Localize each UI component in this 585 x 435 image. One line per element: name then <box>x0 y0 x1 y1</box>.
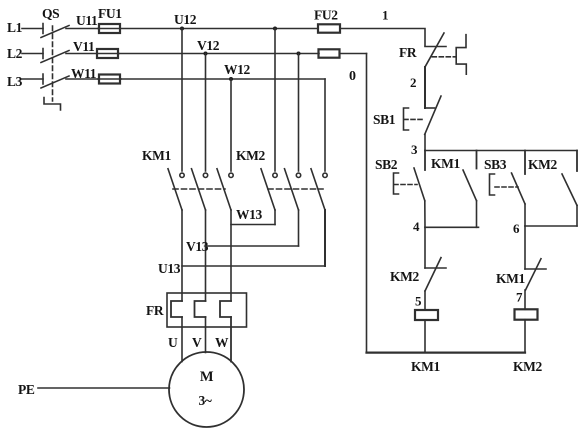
switch QS linkage (dashed) <box>52 26 54 101</box>
svg-text:PE: PE <box>18 382 35 397</box>
wire FR to motor V <box>205 317 207 353</box>
wire SB2 to node 4 <box>424 201 426 228</box>
wire FR to motor U <box>181 317 183 362</box>
svg-text:L3: L3 <box>7 74 23 89</box>
svg-text:4: 4 <box>413 219 420 234</box>
coil KM2 <box>515 309 538 319</box>
pushbutton SB1 blade <box>425 96 441 134</box>
wire node 4 down to KM2 interlock <box>424 227 426 268</box>
svg-text:QS: QS <box>42 6 59 21</box>
svg-text:L2: L2 <box>7 46 23 61</box>
pushbutton SB1 actuator bracket <box>404 108 409 130</box>
svg-text:KM1: KM1 <box>142 148 171 163</box>
wire KM2 self-hold lower terminal <box>576 205 578 226</box>
svg-text:U11: U11 <box>76 13 98 28</box>
wire node 6 link <box>525 225 577 227</box>
contact KM2 self-hold NO blade <box>562 174 577 205</box>
contact KM1-3 terminal circle <box>229 173 233 177</box>
junction dot KM2 tap A <box>273 27 277 31</box>
wire drop phase C corner to KM2 contact 3 <box>324 79 326 171</box>
pushbutton SB2 actuator link (dashed) <box>394 184 417 186</box>
thermal relay FR heater V <box>195 301 206 317</box>
wire L1 lead-in <box>22 28 43 30</box>
wire drop phase A to KM2 contact 1 <box>274 29 276 172</box>
wire coil KM2 to bottom rail <box>524 320 526 353</box>
contact KM2-3 blade <box>311 169 325 210</box>
junction dot V12 <box>204 52 208 56</box>
wire W13 link <box>231 224 275 226</box>
thermal relay FR trip element symbol <box>456 35 466 74</box>
svg-text:M: M <box>200 369 214 385</box>
svg-text:KM2: KM2 <box>236 148 265 163</box>
fuse FU2 element 2 <box>319 49 340 57</box>
svg-text:KM1: KM1 <box>411 359 440 374</box>
fuse FU1 element 3 <box>98 78 121 80</box>
contact KM1 interlock NC blade <box>526 259 542 290</box>
svg-text:2: 2 <box>410 75 416 90</box>
wire U13 link <box>182 265 325 267</box>
wire drop W12 to KM1 contact 3 <box>230 79 232 171</box>
svg-text:SB3: SB3 <box>484 157 507 172</box>
wire KM2-2 down to V13 <box>298 210 300 246</box>
svg-text:6: 6 <box>513 221 520 236</box>
coil KM1 <box>415 310 438 320</box>
svg-text:W12: W12 <box>224 62 250 77</box>
svg-text:U: U <box>168 335 178 350</box>
pushbutton SB1 actuator link (dashed) <box>404 118 424 120</box>
wire KM1 self-hold lower terminal <box>476 201 478 228</box>
wire drop phase B to KM2 contact 2 <box>298 54 300 172</box>
thermal relay FR NC contact crossbar <box>425 46 446 48</box>
svg-text:SB1: SB1 <box>373 112 396 127</box>
wire KM1-1 to FR column U <box>181 210 183 301</box>
wire drop V12 to KM1 contact 2 <box>205 54 207 172</box>
svg-text:V: V <box>192 335 202 350</box>
wire bottom rail <box>367 352 526 354</box>
wire coil KM1 to bottom rail <box>424 320 426 353</box>
svg-text:0: 0 <box>349 69 356 84</box>
wire KM2-1 down to W13 <box>274 210 276 225</box>
thermal relay FR heater U <box>171 301 182 317</box>
svg-text:KM2: KM2 <box>528 157 557 172</box>
pushbutton SB1 NC crossbar <box>425 107 435 109</box>
wire FR to motor W <box>230 317 232 362</box>
wire KM1 self-hold upper terminal <box>476 151 478 169</box>
svg-text:7: 7 <box>516 290 523 305</box>
svg-text:L1: L1 <box>7 20 23 35</box>
contact KM1 interlock NC crossbar <box>525 268 546 270</box>
contact KM2-2 terminal circle <box>296 173 300 177</box>
junction dot U12 <box>180 27 184 31</box>
svg-text:5: 5 <box>415 294 422 309</box>
fuse FU1 element 2 <box>97 53 119 55</box>
svg-text:FU2: FU2 <box>314 8 338 23</box>
svg-text:V11: V11 <box>73 39 95 54</box>
contact KM2 interlock NC crossbar <box>425 267 446 269</box>
svg-text:U13: U13 <box>158 261 181 276</box>
thermal relay FR NC contact blade <box>425 33 444 67</box>
svg-text:W: W <box>215 335 229 350</box>
fuse FU2 element 1 <box>318 24 340 32</box>
fuse FU1 element 1 <box>98 28 120 30</box>
wire SB1 to rail 3 <box>424 134 426 150</box>
wire node 4 link <box>425 226 479 228</box>
wire KM2-3 down to U13 <box>324 210 326 266</box>
svg-text:U12: U12 <box>174 12 197 27</box>
wire phase B: FU1 to FU2 <box>119 53 319 55</box>
wire PE to motor frame <box>38 387 170 389</box>
wire KM1 interlock to coil KM2 <box>524 290 526 309</box>
pushbutton SB2 actuator bracket <box>394 173 399 194</box>
wire L3 lead-in <box>22 78 43 80</box>
switch QS linkage handle <box>44 98 61 111</box>
contact KM2 interlock NC blade <box>425 258 441 291</box>
wire SB3 upper terminal <box>524 151 526 175</box>
junction dot W12 <box>229 77 233 81</box>
wire KM2 interlock to coil KM1 <box>424 291 426 310</box>
svg-text:1: 1 <box>382 8 388 23</box>
wire rail node 3 <box>425 150 577 152</box>
contact KM2-2 blade <box>285 169 299 210</box>
svg-text:KM2: KM2 <box>513 359 542 374</box>
pushbutton SB2 NO blade <box>414 168 425 201</box>
wire node 6 down to KM1 interlock <box>524 226 526 269</box>
wire phase B after FU2 to return corner <box>340 53 367 55</box>
pushbutton SB3 actuator bracket <box>490 174 495 195</box>
thermal relay FR heater W <box>220 301 231 317</box>
svg-text:FR: FR <box>399 45 417 60</box>
contact KM1-1 blade <box>168 169 182 210</box>
svg-text:3~: 3~ <box>199 393 212 408</box>
wire node2: FR contact to SB1 <box>424 67 426 108</box>
contact KM2-1 terminal circle <box>273 173 277 177</box>
contact KM1-1 terminal circle <box>180 173 184 177</box>
contact KM1-3 blade <box>217 169 231 210</box>
wire phase A: FU1 to FU2 <box>120 28 318 30</box>
contact KM1-2 terminal circle <box>203 173 207 177</box>
contactor KM1 linkage (dashed) <box>173 188 225 190</box>
wire SB2 upper terminal <box>424 151 426 171</box>
wire phase C: FU1 to corner <box>121 78 325 80</box>
contact KM1-2 blade <box>192 169 206 210</box>
wire KM1-2 to FR column V <box>205 210 207 301</box>
wire control return line 0 <box>366 54 368 353</box>
wire phase A after FU2 to corner <box>340 29 425 46</box>
contact KM2-1 blade <box>261 169 275 210</box>
wire V13 link <box>206 245 299 247</box>
svg-text:W13: W13 <box>236 207 262 222</box>
svg-text:3: 3 <box>411 142 418 157</box>
wire phase C: QS to FU1 <box>66 78 98 80</box>
pushbutton SB3 actuator link (dashed) <box>495 186 518 188</box>
wire phase B: QS to FU1 <box>66 53 97 55</box>
svg-text:KM2: KM2 <box>390 269 419 284</box>
wire SB3 to node 6 <box>524 204 526 226</box>
svg-text:SB2: SB2 <box>375 157 398 172</box>
contactor KM2 linkage (dashed) <box>268 188 323 190</box>
contact KM2-3 terminal circle <box>323 173 327 177</box>
wire KM2 self-hold upper terminal <box>576 151 578 172</box>
motor M1 circle <box>169 352 244 427</box>
contact KM1 self-hold NO blade <box>463 170 477 201</box>
junction dot KM2 tap B <box>297 52 301 56</box>
wire L2 lead-in <box>22 53 43 55</box>
thermal relay FR actuator link (dashed) <box>432 56 456 58</box>
pushbutton SB3 NO blade <box>512 173 526 204</box>
svg-text:KM1: KM1 <box>496 271 525 286</box>
switch QS pole 1 <box>41 24 69 38</box>
svg-text:V12: V12 <box>197 38 220 53</box>
wire drop U12 to KM1 contact 1 <box>181 29 183 172</box>
switch QS pole 2 <box>41 49 69 63</box>
svg-text:KM1: KM1 <box>431 156 460 171</box>
svg-text:FU1: FU1 <box>98 6 122 21</box>
thermal relay FR outer box <box>167 293 247 327</box>
wire KM1-3 to FR column W <box>230 210 232 301</box>
wire phase A: QS to FU1 <box>66 28 98 30</box>
switch QS pole 3 <box>41 74 69 88</box>
svg-text:FR: FR <box>146 303 164 318</box>
